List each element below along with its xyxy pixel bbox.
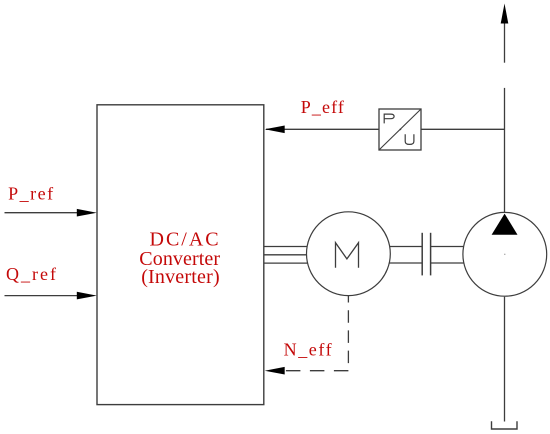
pump P1 circle xyxy=(463,212,547,296)
wire 3-phase line 2 xyxy=(264,254,308,256)
arrowhead to grid (up) xyxy=(501,4,509,24)
arrowhead P_eff into converter xyxy=(265,126,285,134)
svg-text:P_eff: P_eff xyxy=(301,97,345,117)
arrowhead Q_ref into converter xyxy=(77,292,97,300)
converter block U1 (DC/AC inverter) xyxy=(97,105,264,405)
wire shaft motor-coupling upper xyxy=(388,246,422,248)
wire 3-phase line 3 xyxy=(264,262,308,264)
wire Q_ref input xyxy=(5,295,93,297)
coupling bar left xyxy=(421,233,423,276)
transducer box P/U xyxy=(379,109,421,150)
svg-text:P_ref: P_ref xyxy=(8,184,55,204)
bus vertical line second segment xyxy=(504,88,506,212)
dashed feedback wire N_eff horizontal xyxy=(279,370,348,372)
arrowhead P_ref into converter xyxy=(77,209,97,217)
svg-text:Q_ref: Q_ref xyxy=(6,264,58,284)
letter P in transducer xyxy=(384,114,394,123)
svg-text:(Inverter): (Inverter) xyxy=(141,266,220,288)
wire shaft motor-coupling lower xyxy=(388,262,422,264)
bus vertical line below pump xyxy=(504,297,506,422)
arrowhead N_eff into converter xyxy=(265,367,285,375)
wire transducer to bus xyxy=(421,128,505,130)
bus vertical line upper segment xyxy=(504,24,506,63)
dashed feedback wire N_eff vertical xyxy=(347,296,349,371)
letter U in transducer xyxy=(405,134,414,144)
outfall vessel symbol xyxy=(492,421,518,429)
svg-text:N_eff: N_eff xyxy=(284,339,334,359)
pump triangle (flow direction) xyxy=(492,214,518,235)
label DC/AC Converter (Inverter) xyxy=(139,229,220,289)
coupling bar right xyxy=(430,233,432,276)
letter M in motor xyxy=(336,243,359,268)
wire shaft coupling-pump lower xyxy=(431,262,466,264)
wire P_eff from transducer to converter xyxy=(266,128,379,130)
pump center mark xyxy=(504,254,505,255)
motor M1 circle xyxy=(307,212,391,296)
wire 3-phase line 1 xyxy=(264,246,308,248)
wire P_ref input xyxy=(5,212,93,214)
wire shaft coupling-pump upper xyxy=(431,246,466,248)
